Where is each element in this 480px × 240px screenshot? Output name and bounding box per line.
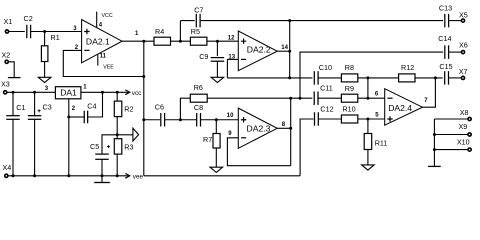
node bus X10 <box>433 148 436 151</box>
wire R11 bottom <box>367 150 369 165</box>
riser DA2.1 output down <box>143 41 145 176</box>
svg-text:X5: X5 <box>459 10 468 19</box>
node C4 left <box>67 116 70 119</box>
svg-text:C10: C10 <box>319 63 332 72</box>
ground under R1 <box>38 77 51 82</box>
svg-text:DA2.4: DA2.4 <box>388 103 412 113</box>
node C3 bottom <box>33 174 36 177</box>
node X6 riser end <box>299 97 302 100</box>
wire C7 row left <box>180 20 194 22</box>
wire R1 top <box>44 32 46 46</box>
svg-text:12: 12 <box>228 35 235 41</box>
op-amp DA2.4 <box>385 89 423 126</box>
svg-text:R3: R3 <box>124 142 133 151</box>
wire R11 top <box>367 119 369 134</box>
wire X4 row vee <box>8 175 125 177</box>
svg-text:C14: C14 <box>438 34 451 43</box>
node C3 top <box>33 91 36 94</box>
op-amp DA2.2 <box>238 31 277 71</box>
svg-text:C4: C4 <box>87 102 96 111</box>
svg-text:C15: C15 <box>439 62 452 71</box>
wire C9 bottom <box>216 61 218 77</box>
svg-text:C8: C8 <box>194 103 203 112</box>
wire X3 row <box>7 91 55 93</box>
wire mid arrow <box>117 134 133 136</box>
ground under R11 <box>362 165 375 170</box>
node riser end on C10 row <box>288 76 291 79</box>
svg-text:C11: C11 <box>320 84 333 93</box>
wire C12 to R10 <box>318 118 341 120</box>
svg-text:X6: X6 <box>459 41 468 50</box>
wire DA2.3 pin 9 feedback <box>227 138 290 166</box>
wire R6 left riser <box>180 98 190 120</box>
wire R2 bottom to R3 top <box>116 117 118 139</box>
svg-text:R6: R6 <box>194 83 203 92</box>
svg-text:X1: X1 <box>4 17 13 26</box>
svg-text:R1: R1 <box>51 33 60 42</box>
node R1 tap <box>43 30 46 33</box>
node summing junction on row <box>366 76 369 79</box>
wire DA2.4 output <box>422 78 435 107</box>
svg-text:R10: R10 <box>342 105 355 114</box>
riser DA2.3 output column <box>290 98 292 166</box>
node bus X9 <box>433 133 436 136</box>
svg-text:VEE: VEE <box>103 64 114 70</box>
svg-text:vee: vee <box>133 173 144 180</box>
node mid rail <box>116 133 119 136</box>
svg-text:X2: X2 <box>2 51 11 60</box>
node R7 tap <box>215 118 218 121</box>
svg-text:R12: R12 <box>401 63 414 72</box>
node R2 top <box>116 91 119 94</box>
node C5 bottom <box>101 174 104 177</box>
bus X8-X10 <box>433 119 435 166</box>
wire R7 top <box>215 120 217 134</box>
op-amp DA2.1 <box>82 20 122 63</box>
vcc arrow <box>125 91 130 93</box>
chassis bar under bus <box>428 165 441 167</box>
ground under C9 <box>211 77 224 82</box>
svg-text:C9: C9 <box>199 52 208 61</box>
svg-text:R11: R11 <box>375 139 388 148</box>
wire R10 to DA2.4 pin 5 <box>358 118 385 120</box>
wire C13 to X5 <box>449 20 462 22</box>
svg-text:C13: C13 <box>439 3 452 12</box>
wire R5 to DA2.2 pin 12 <box>207 40 238 42</box>
svg-text:C5: C5 <box>90 142 99 151</box>
wire C8 to DA2.3 pin 10 <box>201 119 239 121</box>
svg-text:DA1: DA1 <box>60 88 77 98</box>
riser to C7 <box>179 21 181 42</box>
wire C7 to C13 top rail <box>200 20 443 22</box>
svg-text:R7: R7 <box>203 135 212 144</box>
wire X1 to C2 <box>9 31 25 33</box>
node pin 6 junction <box>366 97 369 100</box>
wire C11 to R9 <box>318 97 341 99</box>
svg-text:DA2.1: DA2.1 <box>86 37 110 47</box>
node top rail at DA2.2 output riser <box>288 19 291 22</box>
svg-text:X3: X3 <box>1 80 10 89</box>
riser DA2.2 output <box>289 21 291 78</box>
wire DA1 output row vcc <box>81 91 125 93</box>
wire X9 row <box>434 134 467 136</box>
wire C3 bottom <box>34 119 36 176</box>
node R11 tap <box>366 118 369 121</box>
svg-text:X8: X8 <box>460 108 469 117</box>
wire C4 right and riser <box>88 92 103 117</box>
node DA2.2 output <box>288 50 291 53</box>
wire C14 to X6 <box>449 51 462 53</box>
svg-text:C1: C1 <box>16 103 25 112</box>
wire C11 row <box>207 97 312 99</box>
svg-text:DA2.3: DA2.3 <box>247 124 271 134</box>
wire C12 row <box>300 119 313 176</box>
ground under R7 <box>210 167 223 172</box>
wire feedback row to C10 <box>227 77 312 79</box>
wire DA2.2 output <box>277 50 290 52</box>
wire C5 top from mid rail <box>102 135 117 154</box>
node R4-R5 junction <box>179 40 182 43</box>
wire C1 bottom <box>12 119 14 176</box>
vee arrow <box>125 175 130 177</box>
svg-text:10: 10 <box>227 113 234 119</box>
bottom signal rail <box>144 175 300 177</box>
wire R2 riser <box>116 92 118 101</box>
node R12-C15-output <box>434 76 437 79</box>
wire C6 row from DA2.1 riser <box>144 119 160 121</box>
node C4 riser top <box>101 91 104 94</box>
wire C2 to DA2.1 pin 3 <box>31 31 82 33</box>
node C9 tap <box>216 40 219 43</box>
node feedback to riser <box>142 75 145 78</box>
VCC stub pin 4 <box>96 12 98 28</box>
node C1 bottom <box>12 174 15 177</box>
wire R9 to DA2.4 pin 6 <box>358 97 385 99</box>
mid reference arrow <box>133 128 139 141</box>
wire DA2.1 output <box>122 40 154 42</box>
svg-text:vcc: vcc <box>132 90 141 97</box>
svg-text:C12: C12 <box>320 104 333 113</box>
svg-text:VCC: VCC <box>102 13 113 19</box>
svg-text:R2: R2 <box>124 105 133 114</box>
wire X6 row <box>300 52 443 98</box>
node C6 row tap <box>142 118 145 121</box>
chassis stub below C5 <box>101 176 103 183</box>
wire DA2.1 pin 2 feedback <box>63 50 144 76</box>
wire C15 to X7 <box>449 77 462 79</box>
op-amp DA2.3 <box>238 108 277 148</box>
node C1 top <box>12 91 15 94</box>
node DA2.3 output riser top <box>289 97 292 100</box>
VEE stub pin 11 <box>97 55 99 66</box>
wire C3 top <box>34 92 36 115</box>
svg-text:R5: R5 <box>191 27 200 36</box>
node pin2 column bottom <box>67 174 70 177</box>
chassis bar below C5 <box>94 182 110 184</box>
wire R4 to R5 <box>171 40 191 42</box>
riser summing node to pin 6 row <box>367 78 369 98</box>
svg-text:X4: X4 <box>3 163 12 172</box>
wire R7 bottom <box>215 148 217 167</box>
svg-text:X9: X9 <box>459 122 468 131</box>
wire R3 bottom <box>116 154 118 176</box>
node DA2.1 output <box>142 40 145 43</box>
svg-text:DA2.2: DA2.2 <box>247 45 271 55</box>
svg-text:X7: X7 <box>459 67 468 76</box>
wire C4 left <box>69 116 84 118</box>
wire R1 bottom <box>44 62 46 78</box>
wire C1 top <box>12 92 14 115</box>
wire X8 row <box>434 118 467 120</box>
wire X2 to chassis <box>9 62 15 78</box>
svg-text:C3: C3 <box>43 103 52 112</box>
wire DA2.2 pin 13 feedback <box>227 59 238 78</box>
chassis bar X2 <box>8 77 21 79</box>
svg-text:C6: C6 <box>155 103 164 112</box>
wire C6 to C8 <box>165 119 197 121</box>
wire C5 bottom <box>101 159 103 176</box>
wire DA2.3 output <box>277 127 291 129</box>
svg-text:R8: R8 <box>345 63 354 72</box>
node C6-C8 junction <box>179 118 182 121</box>
svg-text:11: 11 <box>100 54 107 60</box>
regulator DA1 <box>55 87 81 99</box>
wire C10 to R8 <box>318 77 341 79</box>
svg-text:R9: R9 <box>345 84 354 93</box>
wire R8 to R12 <box>358 77 399 79</box>
node DA2.3 output <box>289 127 292 130</box>
wire DA1 pin 2 column <box>68 99 70 176</box>
svg-text:14: 14 <box>281 45 288 51</box>
node R3 bottom <box>116 174 119 177</box>
wire X10 row <box>434 149 467 151</box>
svg-text:X10: X10 <box>457 138 470 147</box>
svg-text:C2: C2 <box>24 14 33 23</box>
wire C9 top <box>216 41 218 56</box>
svg-text:C7: C7 <box>194 5 203 14</box>
wire R12 to C15 <box>415 77 443 79</box>
svg-text:R4: R4 <box>155 27 164 36</box>
